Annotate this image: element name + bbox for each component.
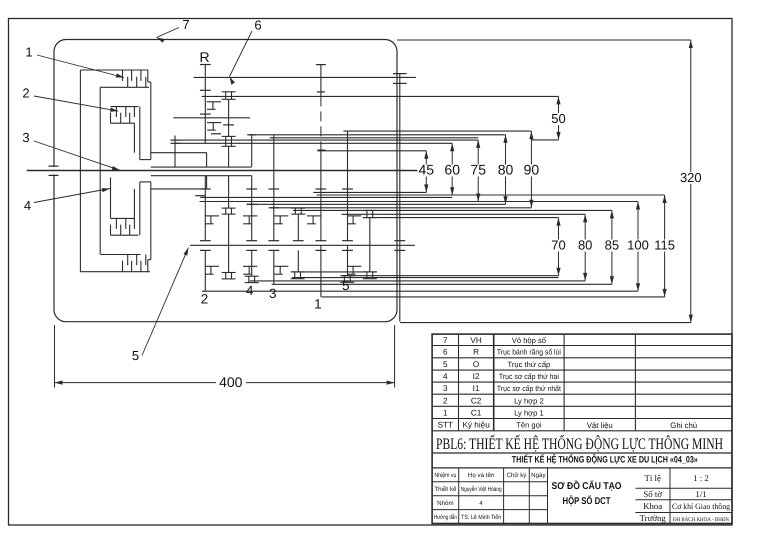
svg-text:Khoa: Khoa bbox=[643, 501, 662, 511]
svg-text:R: R bbox=[199, 49, 209, 65]
svg-text:HỘP SỐ DCT: HỘP SỐ DCT bbox=[563, 495, 611, 507]
svg-text:Số tờ: Số tờ bbox=[643, 489, 662, 499]
svg-text:7: 7 bbox=[443, 336, 448, 345]
svg-text:STT: STT bbox=[438, 421, 453, 430]
svg-text:5: 5 bbox=[443, 360, 448, 369]
svg-text:VH: VH bbox=[470, 336, 481, 345]
svg-text:Ký hiệu: Ký hiệu bbox=[462, 421, 490, 430]
svg-text:Chữ ký: Chữ ký bbox=[506, 472, 527, 479]
svg-text:5: 5 bbox=[342, 278, 350, 293]
svg-text:Cơ khí Giao thông: Cơ khí Giao thông bbox=[672, 502, 730, 511]
svg-text:4: 4 bbox=[479, 500, 483, 507]
svg-text:3: 3 bbox=[443, 384, 448, 393]
svg-text:400: 400 bbox=[219, 374, 243, 390]
svg-text:5: 5 bbox=[132, 348, 139, 363]
svg-text:C1: C1 bbox=[471, 408, 482, 417]
svg-text:1: 1 bbox=[25, 45, 32, 60]
svg-text:1 : 2: 1 : 2 bbox=[693, 473, 709, 483]
svg-text:Nguyễn Việt Hoàng: Nguyễn Việt Hoàng bbox=[461, 485, 502, 493]
svg-text:ĐH BÁCH KHOA - ĐHĐN: ĐH BÁCH KHOA - ĐHĐN bbox=[673, 516, 729, 523]
svg-text:TS. Lê Minh Tiến: TS. Lê Minh Tiến bbox=[461, 514, 501, 521]
svg-text:2: 2 bbox=[443, 396, 448, 405]
svg-text:Ly hợp 2: Ly hợp 2 bbox=[514, 396, 544, 405]
svg-text:1: 1 bbox=[314, 297, 322, 312]
svg-text:Tỉ lệ: Tỉ lệ bbox=[645, 473, 661, 483]
svg-text:6: 6 bbox=[254, 18, 261, 33]
svg-text:100: 100 bbox=[627, 238, 649, 253]
svg-text:1: 1 bbox=[443, 408, 448, 417]
svg-text:115: 115 bbox=[654, 238, 675, 253]
svg-text:I1: I1 bbox=[473, 384, 480, 393]
svg-text:Trục sơ cấp thứ hai: Trục sơ cấp thứ hai bbox=[499, 372, 559, 381]
svg-text:Nhóm: Nhóm bbox=[437, 500, 454, 507]
svg-text:70: 70 bbox=[551, 238, 565, 253]
svg-text:4: 4 bbox=[443, 372, 448, 381]
svg-text:Vật liệu: Vật liệu bbox=[587, 421, 613, 430]
svg-text:Trường: Trường bbox=[640, 513, 667, 523]
svg-text:7: 7 bbox=[182, 17, 189, 32]
svg-text:80: 80 bbox=[498, 162, 514, 178]
svg-text:Trục sơ cấp thứ nhất: Trục sơ cấp thứ nhất bbox=[497, 384, 562, 393]
svg-text:4: 4 bbox=[24, 198, 31, 213]
svg-text:R: R bbox=[473, 348, 479, 357]
svg-text:2: 2 bbox=[22, 86, 29, 101]
svg-text:1/1: 1/1 bbox=[695, 489, 706, 499]
svg-text:Họ và tên: Họ và tên bbox=[468, 472, 495, 479]
svg-text:320: 320 bbox=[680, 170, 702, 185]
svg-text:50: 50 bbox=[551, 111, 565, 126]
svg-text:Ghi chú: Ghi chú bbox=[670, 421, 697, 430]
svg-text:6: 6 bbox=[443, 348, 448, 357]
svg-text:I2: I2 bbox=[473, 372, 480, 381]
svg-text:3: 3 bbox=[269, 286, 277, 301]
svg-text:Trục thứ cấp: Trục thứ cấp bbox=[508, 360, 551, 369]
svg-text:60: 60 bbox=[444, 162, 460, 178]
svg-text:Nhiệm vụ: Nhiệm vụ bbox=[434, 472, 456, 479]
svg-text:75: 75 bbox=[470, 162, 486, 178]
svg-text:80: 80 bbox=[578, 238, 592, 253]
svg-text:Vỏ hộp số: Vỏ hộp số bbox=[512, 336, 547, 345]
svg-text:Trục bánh răng số lùi: Trục bánh răng số lùi bbox=[497, 348, 561, 357]
svg-text:45: 45 bbox=[419, 162, 435, 178]
svg-text:2: 2 bbox=[201, 292, 209, 307]
svg-text:THIẾT KẾ HỆ THỐNG ĐỘNG LỰC XE: THIẾT KẾ HỆ THỐNG ĐỘNG LỰC XE DU LỊCH «0… bbox=[512, 453, 698, 464]
svg-text:Hướng dẫn: Hướng dẫn bbox=[434, 513, 457, 521]
svg-text:90: 90 bbox=[524, 162, 540, 178]
svg-text:4: 4 bbox=[246, 283, 254, 298]
svg-text:PBL6: THIẾT KẾ HỆ THỐNG ĐỘNG L: PBL6: THIẾT KẾ HỆ THỐNG ĐỘNG LỰC THÔNG M… bbox=[436, 434, 723, 453]
svg-text:Thiết kế: Thiết kế bbox=[434, 486, 457, 493]
svg-text:Tên gọi: Tên gọi bbox=[516, 421, 542, 430]
svg-text:Ly hợp 1: Ly hợp 1 bbox=[514, 408, 544, 417]
svg-text:O: O bbox=[473, 360, 479, 369]
svg-text:Ngày: Ngày bbox=[531, 472, 546, 479]
svg-text:SƠ ĐỒ CẤU TẠO: SƠ ĐỒ CẤU TẠO bbox=[552, 480, 622, 492]
svg-text:85: 85 bbox=[605, 238, 619, 253]
svg-text:C2: C2 bbox=[471, 396, 482, 405]
svg-text:3: 3 bbox=[22, 130, 29, 145]
